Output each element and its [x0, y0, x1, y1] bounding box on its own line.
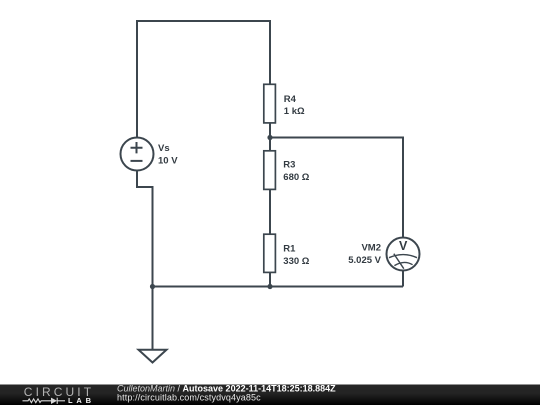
- svg-text:R4: R4: [284, 94, 297, 105]
- svg-text:1 kΩ: 1 kΩ: [284, 106, 305, 117]
- svg-text:330 Ω: 330 Ω: [283, 256, 309, 267]
- svg-text:LAB: LAB: [68, 396, 95, 405]
- svg-text:R3: R3: [283, 160, 295, 171]
- svg-text:http://circuitlab.com/cstydvq4: http://circuitlab.com/cstydvq4ya85c: [117, 392, 261, 402]
- svg-text:680 Ω: 680 Ω: [283, 172, 309, 183]
- svg-text:V: V: [399, 239, 408, 253]
- svg-text:VM2: VM2: [361, 243, 381, 254]
- svg-text:R1: R1: [283, 244, 296, 255]
- svg-text:5.025 V: 5.025 V: [348, 255, 381, 266]
- svg-text:10 V: 10 V: [158, 155, 178, 166]
- svg-text:Vs: Vs: [158, 143, 170, 154]
